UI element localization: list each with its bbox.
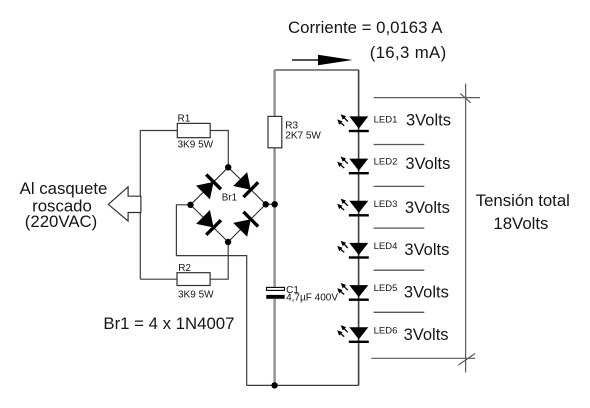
LED6: [337, 325, 369, 343]
LED3: [337, 199, 369, 217]
AC input arrow (al casquete): [108, 187, 141, 221]
capacitor C1: [267, 287, 285, 290]
svg-text:LED4: LED4: [374, 241, 398, 252]
node bottom junction: [225, 239, 231, 245]
svg-text:3Volts: 3Volts: [406, 112, 451, 130]
wire R1 left: [140, 130, 177, 132]
wire LED chain vertical: [358, 70, 360, 386]
svg-text:Br1: Br1: [222, 192, 237, 203]
svg-text:3Volts: 3Volts: [404, 284, 449, 302]
svg-text:R2: R2: [178, 263, 191, 274]
svg-text:LED2: LED2: [374, 157, 398, 168]
svg-text:Br1 = 4 x 1N4007: Br1 = 4 x 1N4007: [103, 314, 234, 333]
dimension vertical line: [465, 84, 467, 373]
node left junction: [187, 202, 193, 208]
dimension bottom tick: [458, 354, 475, 366]
diode D4 bottom-right: [233, 211, 260, 238]
diode D3 bottom-left: [196, 210, 223, 237]
svg-text:3Volts: 3Volts: [405, 155, 450, 173]
svg-text:(220VAC): (220VAC): [25, 212, 97, 231]
wire left loop vertical: [139, 130, 141, 279]
svg-text:3Volts: 3Volts: [404, 326, 449, 344]
node bottom-wire junction: [271, 382, 277, 388]
node top junction: [225, 164, 231, 170]
svg-text:3K9 5W: 3K9 5W: [178, 140, 214, 151]
dimension top extension line: [374, 97, 480, 99]
diode D1 top-left: [196, 173, 223, 200]
LED4: [337, 241, 369, 259]
dimension top tick: [460, 94, 470, 103]
svg-text:LED6: LED6: [374, 325, 398, 336]
node C1-line junction: [272, 201, 278, 207]
diode D2 top-right: [233, 172, 260, 199]
svg-text:(16,3 mA): (16,3 mA): [370, 43, 447, 62]
LED separator 1: [374, 144, 425, 146]
dimension bottom extension line: [371, 357, 475, 359]
LED separator 3: [374, 227, 425, 229]
wire bridge left node jog down to bottom: [176, 205, 246, 386]
svg-text:3Volts: 3Volts: [405, 199, 450, 217]
svg-text:LED1: LED1: [374, 115, 398, 126]
LED separator 5: [374, 311, 425, 313]
wire R1 right and down to bridge top: [210, 131, 228, 168]
wire R3/C1 vertical gray lower: [273, 299, 275, 385]
svg-text:18Volts: 18Volts: [493, 214, 548, 233]
LED separator 2: [374, 185, 425, 187]
wire bridge bottom node down and left to R2: [210, 242, 228, 279]
LED2: [337, 157, 369, 175]
LED5: [337, 283, 369, 301]
wire R3/C1 vertical gray upper: [273, 70, 275, 287]
bridge Br1 diamond sides: [191, 167, 266, 242]
svg-text:2K7 5W: 2K7 5W: [285, 130, 321, 141]
wire bottom horizontal: [247, 384, 359, 386]
resistor R3: [268, 116, 282, 147]
LED separator 4: [374, 269, 425, 271]
svg-text:4,7µF 400V: 4,7µF 400V: [286, 292, 338, 303]
svg-text:3K9 5W: 3K9 5W: [178, 290, 214, 301]
svg-text:Al casquete: Al casquete: [20, 179, 108, 198]
svg-text:Tensión total: Tensión total: [476, 191, 570, 210]
node right junction: [263, 201, 269, 207]
LED1: [337, 114, 369, 132]
resistor R2: [177, 273, 210, 286]
svg-text:LED5: LED5: [374, 283, 398, 294]
wire R2 left: [140, 278, 177, 280]
svg-text:LED3: LED3: [374, 199, 398, 210]
wire bridge right node to C1 line: [266, 203, 275, 205]
svg-text:Corriente = 0,0163 A: Corriente = 0,0163 A: [288, 18, 443, 37]
resistor R1: [177, 123, 210, 137]
current arrow: [292, 59, 320, 61]
svg-text:R1: R1: [178, 113, 191, 124]
wire top horizontal: [275, 69, 359, 71]
svg-text:3Volts: 3Volts: [404, 241, 449, 259]
